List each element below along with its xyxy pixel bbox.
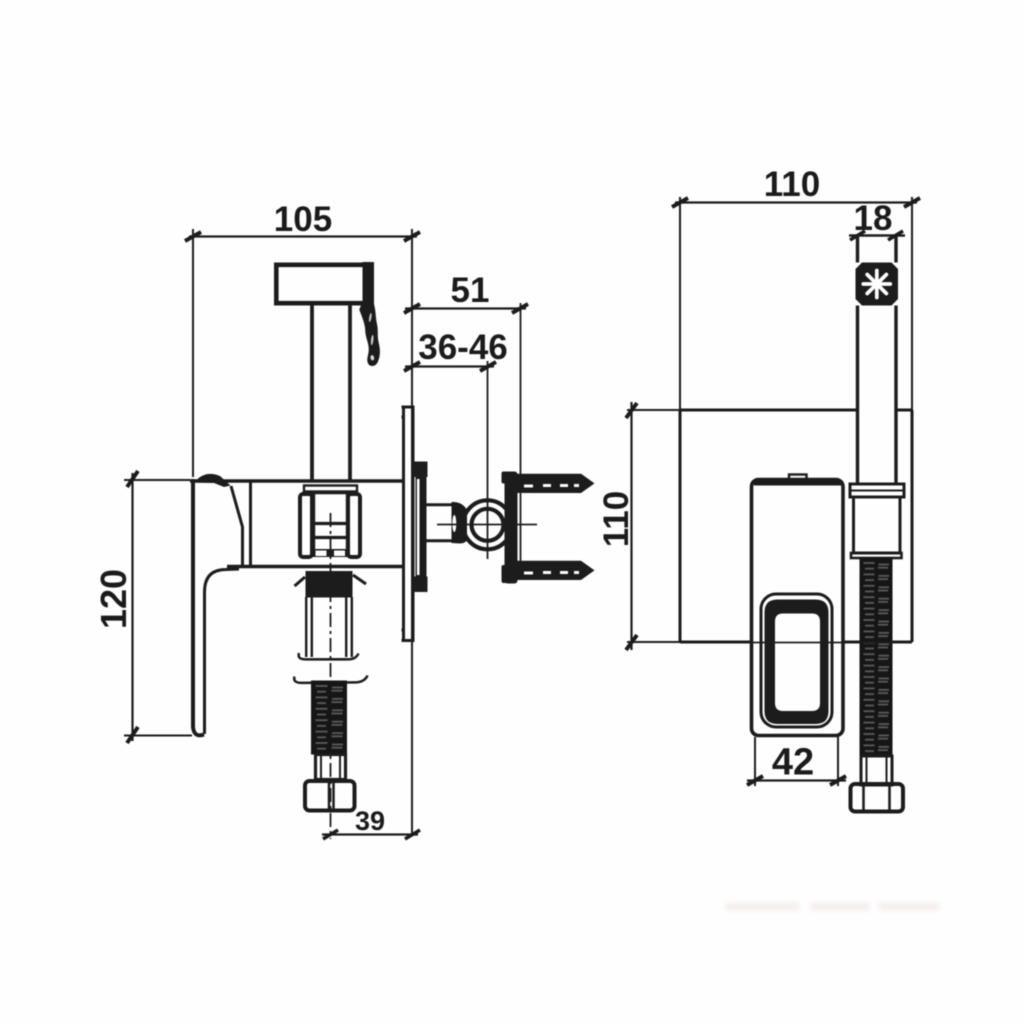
crosshair vertical / extension of 36-46 [487,361,489,559]
sprayer column (right view) [856,235,859,484]
sprayer neck lines [310,306,314,481]
faint watermark [725,902,800,911]
valve body left edge [249,481,252,566]
svg-text:105: 105 [274,200,332,239]
trigger lever hook [359,304,380,366]
trigger lever white slivers [368,313,374,361]
hose nipple dome at fitting [452,502,468,544]
svg-text:51: 51 [451,271,490,310]
collar wing right [353,575,366,584]
plate bottom line over holder [680,642,912,644]
bottom screw [517,561,581,580]
svg-text:39: 39 [355,806,385,836]
svg-text:120: 120 [93,569,134,629]
hose nut (left view) [305,781,355,811]
extension of 120 bottom [124,735,192,737]
in-wall valve (left view) [415,462,428,593]
sprayer head (left view) [274,263,372,305]
cup top line [302,492,358,495]
sprayer head right thick edge [363,262,375,306]
dimension 42 [754,737,756,786]
handle hump [194,474,231,487]
hose end tube (right view) [861,756,892,785]
extension lines of top 110 [679,197,681,412]
cup rib line 1 [313,522,349,525]
hose coupler block [854,497,901,553]
ribbed hose (right view) [860,557,893,756]
holder cup left bar [300,494,312,557]
valve body top line [190,479,403,482]
circular fitting inner [472,509,504,541]
break line lower [294,676,367,683]
handle outer edge [193,479,204,735]
extension of 120 top [124,479,190,481]
handle inner edge [205,569,240,734]
handle front slant edge [231,486,243,566]
connection tube to fitting [426,503,454,506]
holder cup right bar [348,494,360,557]
dimension 39 line [322,830,420,839]
holder opening outer [761,594,832,727]
dimension 105 line [185,232,420,241]
crosshair horizontal [437,524,537,526]
circular fitting outer [463,500,512,549]
long extension line right (105 top / 39 bottom / plate edge) [411,229,413,836]
holder opening ring [765,600,829,725]
wall plate (left view) [402,407,415,642]
hose coupler bottom flange [851,553,902,558]
svg-text:42: 42 [772,742,814,784]
cup inner walls [313,492,315,550]
svg-text:18: 18 [854,199,893,238]
dimension 36-46 line [404,362,496,371]
dimension 110 left line [626,402,637,650]
hose coupler top flange [850,484,904,497]
holder escutcheon bar [304,486,357,492]
svg-text:36-46: 36-46 [418,328,508,367]
valve body bottom line [227,565,403,568]
hose end tube (left view) [316,755,346,780]
column top cap / 18 dim line [849,234,905,237]
top screw [517,474,581,493]
mounting bracket bar [505,472,518,584]
black collar band [306,571,353,598]
hose nut (right view) [851,784,904,812]
extension of 51 [520,303,522,578]
collar wing left [295,577,306,586]
ribbed hose section (left view) [311,681,347,755]
spray face star [863,271,890,298]
holder bracket (right view) [752,480,844,736]
dimension 51 line [404,304,528,313]
break line upper [299,653,359,659]
holder top tab [789,475,807,480]
extension lines of left 110 [627,409,680,411]
cup bottom dark row [312,549,349,557]
extension line left of 105 [192,229,194,477]
centerline of sprayer column [330,513,332,839]
cup rib line 2 [313,536,349,539]
hose cylinder walls [306,597,352,657]
svg-text:110: 110 [597,491,636,547]
dimension 120 line [127,471,138,743]
spray face square [856,263,899,306]
svg-text:110: 110 [764,165,820,204]
dimension 110 top line [672,198,920,207]
wall plate (right view) [680,410,912,642]
